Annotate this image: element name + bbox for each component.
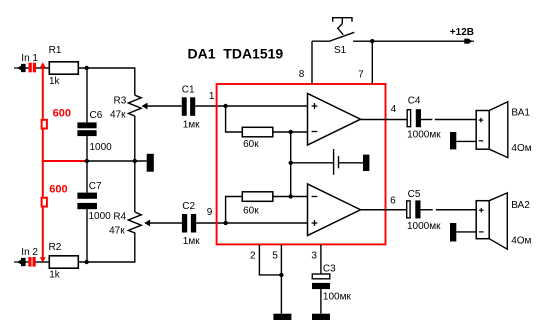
wire 60k to U1 minus input bbox=[274, 131, 308, 133]
wire R4 wiper to C2 bbox=[149, 222, 182, 224]
resistor 600 (bottom, red) bbox=[42, 198, 47, 207]
svg-text:1000: 1000 bbox=[89, 211, 112, 222]
svg-text:60к: 60к bbox=[243, 139, 259, 150]
op-amp IC box DA1 (red outline) bbox=[217, 84, 386, 244]
wire pin 5 to ground bbox=[280, 244, 282, 313]
capacitor internal (half supply) bbox=[334, 149, 339, 175]
wire red divider vertical (top) bbox=[42, 67, 44, 119]
svg-text:9: 9 bbox=[207, 207, 213, 218]
wire BA2 minus to ground bbox=[456, 231, 476, 233]
svg-text:1мк: 1мк bbox=[183, 236, 200, 247]
ground bar (BA2) bbox=[450, 223, 456, 242]
svg-text:600: 600 bbox=[49, 184, 67, 196]
svg-text:4: 4 bbox=[391, 104, 397, 115]
resistor R4 potentiometer zigzag bbox=[128, 212, 141, 235]
ground bar (rail) bbox=[147, 154, 154, 172]
node junction mid cap bbox=[289, 161, 293, 165]
svg-text:1000мк: 1000мк bbox=[407, 221, 441, 232]
svg-text:C1: C1 bbox=[182, 85, 195, 96]
svg-text:C4: C4 bbox=[408, 96, 421, 107]
resistor 60k (bottom) bbox=[242, 192, 272, 202]
wire feedback tap U1 bbox=[226, 106, 242, 132]
svg-text:4Ом: 4Ом bbox=[511, 236, 531, 247]
svg-text:C6: C6 bbox=[90, 110, 103, 121]
svg-text:In 2: In 2 bbox=[21, 247, 38, 258]
svg-text:R2: R2 bbox=[49, 242, 62, 253]
wire internal cap to ground bbox=[339, 162, 364, 164]
svg-text:DA1 TDA1519: DA1 TDA1519 bbox=[188, 46, 284, 62]
capacitor C2 bbox=[182, 214, 196, 233]
switch S1 bbox=[312, 18, 354, 42]
svg-text:In 1: In 1 bbox=[21, 53, 38, 64]
wire red divider mid bbox=[42, 130, 87, 197]
svg-text:1000мк: 1000мк bbox=[407, 130, 441, 141]
svg-text:C2: C2 bbox=[182, 201, 195, 212]
svg-text:R3: R3 bbox=[114, 96, 127, 107]
svg-text:R4: R4 bbox=[113, 212, 126, 223]
wire C7 to R2 junction bbox=[86, 209, 88, 262]
svg-text:+12В: +12В bbox=[450, 27, 474, 38]
svg-text:7: 7 bbox=[358, 70, 364, 81]
svg-text:5: 5 bbox=[272, 251, 278, 262]
svg-text:C7: C7 bbox=[89, 181, 102, 192]
wire C6 to rail bbox=[86, 136, 88, 161]
node junction R2 out bbox=[84, 260, 88, 264]
svg-text:1k: 1k bbox=[49, 76, 61, 87]
wire U2 output pin 6 bbox=[361, 209, 407, 211]
wire junction to C6 bbox=[86, 68, 88, 122]
node +12V arrow bbox=[464, 39, 474, 44]
svg-text:C3: C3 bbox=[323, 264, 336, 275]
node junction U2 minus bbox=[289, 194, 293, 198]
wire C3 to ground bbox=[320, 289, 322, 314]
wire In2 to R2 bbox=[36, 261, 49, 263]
wire feedback tap U2 bbox=[226, 197, 242, 224]
svg-text:ВА2: ВА2 bbox=[511, 200, 530, 211]
wire R3 wiper to C1 bbox=[147, 105, 182, 107]
svg-text:1: 1 bbox=[209, 91, 215, 102]
svg-text:3: 3 bbox=[311, 251, 317, 262]
svg-text:1k: 1k bbox=[49, 270, 61, 281]
node junction pin7 bbox=[370, 39, 374, 43]
node In 2 arrow bbox=[14, 258, 28, 266]
svg-text:2: 2 bbox=[250, 251, 256, 262]
node junction rail pots bbox=[133, 159, 137, 163]
op-amp U2 triangle bbox=[308, 184, 361, 236]
wire R2 out to R4 bottom bbox=[79, 235, 135, 263]
resistor 60k (top) bbox=[242, 127, 272, 137]
wire C1 to op-amp U1 plus input (pin 1) bbox=[195, 105, 307, 107]
wire U1 output pin 4 bbox=[361, 119, 407, 121]
node junction pin1 bbox=[223, 104, 227, 108]
resistor 600 (top, red) bbox=[42, 120, 47, 129]
wire rail to R4 top bbox=[134, 161, 136, 212]
svg-text:600: 600 bbox=[53, 108, 71, 120]
wire switch to +12V bbox=[353, 40, 465, 42]
capacitor C1 bbox=[182, 97, 195, 116]
capacitor C4 (polarized) bbox=[407, 110, 410, 127]
capacitor C7 bbox=[77, 193, 97, 210]
wire to internal capacitor bbox=[291, 162, 333, 164]
resistor R2 bbox=[49, 256, 78, 268]
ground bar (pin 5) bbox=[273, 314, 291, 320]
svg-text:4Ом: 4Ом bbox=[511, 143, 531, 154]
speaker BA2 bbox=[476, 201, 489, 239]
svg-text:C5: C5 bbox=[408, 189, 421, 200]
svg-text:47к: 47к bbox=[110, 110, 126, 121]
wire BA1 minus to ground bbox=[456, 140, 476, 142]
node In 1 arrow bbox=[14, 64, 29, 72]
node red arrow junction In1 bbox=[40, 62, 46, 68]
ground bar (internal) bbox=[363, 155, 369, 171]
svg-text:S1: S1 bbox=[334, 45, 347, 56]
wire R3 bottom to rail bbox=[134, 116, 136, 161]
wire minus bus vertical bbox=[290, 132, 292, 197]
wire In1 to R1 bbox=[36, 67, 49, 69]
op-amp U1 triangle bbox=[308, 94, 361, 146]
node junction pin9 bbox=[223, 221, 227, 225]
wire rail to ground bbox=[87, 160, 147, 162]
svg-text:60к: 60к bbox=[243, 206, 259, 217]
capacitor C6 bbox=[77, 122, 96, 136]
wire C4 to BA1 bbox=[421, 119, 432, 121]
node junction pins 2-5 bbox=[279, 273, 283, 277]
resistor R1 bbox=[49, 62, 78, 74]
capacitor input coupling In2 (red) bbox=[28, 257, 35, 267]
wire pin 3 to C3 bbox=[320, 244, 322, 273]
wire pin 7 bbox=[371, 41, 373, 84]
ground bar (BA1) bbox=[450, 132, 456, 149]
svg-text:47к: 47к bbox=[109, 226, 125, 237]
svg-text:1000: 1000 bbox=[90, 142, 113, 153]
capacitor C5 (polarized) bbox=[407, 201, 410, 218]
wire R1 out to R3 top bbox=[79, 68, 135, 95]
svg-text:8: 8 bbox=[299, 69, 305, 80]
wire C2 to op-amp U2 plus input (pin 9) bbox=[196, 222, 307, 224]
svg-text:1мк: 1мк bbox=[183, 120, 200, 131]
svg-text:ВА1: ВА1 bbox=[511, 108, 530, 119]
speaker BA1 bbox=[476, 111, 489, 150]
capacitor input coupling In1 (red) bbox=[29, 63, 37, 73]
wire junction to C7 bbox=[86, 161, 88, 193]
wire red divider to In2 with arrow bbox=[42, 208, 44, 259]
resistor R3 potentiometer zigzag bbox=[128, 95, 141, 116]
node junction R1 out bbox=[84, 66, 88, 70]
wire C5 to BA2 bbox=[421, 209, 433, 211]
wire pin 8 bbox=[311, 41, 313, 84]
node junction rail C6C7 bbox=[85, 159, 89, 163]
svg-text:R1: R1 bbox=[49, 45, 62, 56]
svg-text:6: 6 bbox=[390, 196, 396, 207]
wire pin 2 bbox=[259, 244, 281, 275]
capacitor C3 (polarized) bbox=[312, 274, 330, 279]
wire 60k to U2 minus input bbox=[274, 196, 308, 198]
node junction U1 minus bbox=[289, 130, 293, 134]
ground bar (C3) bbox=[312, 314, 330, 320]
svg-text:100мк: 100мк bbox=[323, 292, 352, 303]
